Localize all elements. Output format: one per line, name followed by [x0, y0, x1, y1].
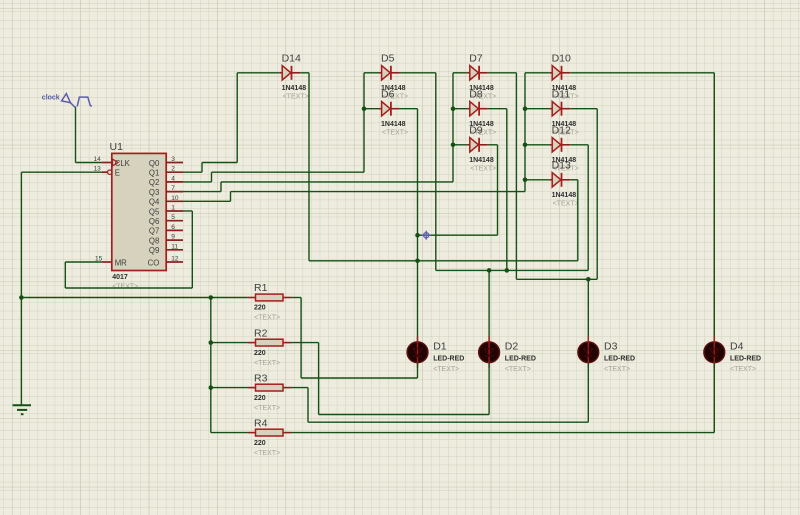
junction D9 anode — [451, 143, 456, 148]
junction D12 anode — [523, 143, 528, 148]
wire D12 cathode — [570, 144, 588, 146]
svg-text:D14: D14 — [282, 53, 301, 65]
svg-text:D3: D3 — [604, 340, 618, 352]
diode D9 — [467, 125, 496, 173]
clock generator — [62, 94, 92, 108]
svg-text:<TEXT>: <TEXT> — [254, 360, 280, 367]
pin 13 E stub with bubble — [102, 171, 108, 173]
wire bus to R2 — [211, 342, 248, 344]
svg-text:MR: MR — [115, 258, 127, 267]
svg-text:LED-RED: LED-RED — [433, 356, 464, 363]
wire R2 right — [291, 342, 319, 344]
svg-text:CLK: CLK — [115, 159, 131, 168]
wire node row y235 — [418, 234, 498, 236]
wire MR loop bottom horizontal — [65, 287, 192, 289]
pin 6 Q7 stub — [166, 229, 183, 231]
svg-text:R3: R3 — [254, 372, 268, 384]
svg-text:D7: D7 — [469, 53, 483, 65]
wire D1 cathode down — [417, 363, 419, 378]
svg-text:<TEXT>: <TEXT> — [283, 93, 309, 100]
junction left rail / ground row — [19, 295, 24, 300]
wire Q3 staircase — [183, 191, 221, 193]
wire bus corner to R4 — [211, 432, 248, 434]
junction D1 line upper — [415, 233, 420, 238]
op IC U1 4017 body — [112, 153, 166, 270]
LED D2 — [479, 336, 536, 373]
svg-text:LED-RED: LED-RED — [505, 356, 536, 363]
junction ground row / resistor bus — [209, 295, 214, 300]
diode D11 — [550, 89, 579, 137]
svg-text:4: 4 — [171, 175, 175, 182]
resistor R3 — [248, 372, 291, 412]
wire bus to R3 — [211, 387, 248, 389]
svg-text:Q9: Q9 — [149, 246, 159, 255]
svg-text:<TEXT>: <TEXT> — [254, 405, 280, 412]
diode D8 — [467, 89, 496, 137]
wire to D10 anode — [525, 72, 550, 74]
wire R3 right — [291, 387, 308, 389]
pin 15 MR stub — [102, 261, 112, 263]
svg-text:D8: D8 — [469, 89, 483, 101]
svg-text:U1: U1 — [110, 141, 124, 153]
svg-text:11: 11 — [171, 243, 178, 250]
svg-text:D11: D11 — [552, 89, 571, 101]
wire to D14 anode — [237, 72, 279, 74]
svg-text:LED-RED: LED-RED — [604, 356, 635, 363]
svg-text:D12: D12 — [552, 125, 571, 137]
LED D3 — [578, 336, 635, 373]
svg-text:5: 5 — [171, 214, 175, 221]
pin 5 Q6 stub — [166, 220, 183, 222]
svg-text:1N4148: 1N4148 — [381, 121, 406, 128]
wire to D13 anode — [525, 179, 550, 181]
wire D7-D9 anode vertical — [452, 73, 454, 182]
diode D7 — [467, 53, 496, 101]
svg-text:D5: D5 — [381, 53, 395, 65]
svg-text:Q5: Q5 — [149, 207, 160, 216]
junction D6 anode — [362, 106, 367, 111]
svg-text:3: 3 — [171, 156, 175, 163]
wire D2 cathode down — [488, 363, 490, 415]
ground — [13, 405, 31, 414]
svg-text:<TEXT>: <TEXT> — [112, 284, 138, 291]
svg-text:<TEXT>: <TEXT> — [505, 366, 531, 373]
svg-text:10: 10 — [171, 195, 179, 202]
svg-text:1N4148: 1N4148 — [282, 85, 307, 92]
svg-text:<TEXT>: <TEXT> — [470, 165, 496, 172]
svg-text:Q0: Q0 — [149, 159, 160, 168]
wire D11 cathode — [570, 108, 597, 110]
svg-text:<TEXT>: <TEXT> — [604, 366, 630, 373]
wire to D11 anode — [525, 108, 550, 110]
wire D13 cathode — [570, 179, 578, 181]
svg-text:1N4148: 1N4148 — [552, 192, 577, 199]
svg-text:Q1: Q1 — [149, 169, 159, 178]
wire Q4 staircase — [183, 200, 231, 202]
svg-text:E: E — [115, 169, 120, 178]
wire D8 cathode — [488, 108, 507, 110]
svg-text:R1: R1 — [254, 282, 268, 294]
wire D9 cathode — [488, 144, 498, 146]
diode D13 — [550, 160, 579, 208]
resistor R1 — [248, 282, 291, 322]
svg-text:D1: D1 — [433, 340, 447, 352]
svg-text:Q4: Q4 — [149, 198, 160, 207]
wire node row y270 — [436, 269, 588, 271]
svg-text:D2: D2 — [505, 340, 519, 352]
junction D3 anode — [586, 277, 591, 282]
svg-text:R2: R2 — [254, 327, 268, 339]
wire D14 anode vertical — [236, 73, 238, 163]
svg-text:1: 1 — [171, 205, 175, 212]
wire left rail vertical to ground — [20, 172, 22, 405]
svg-text:Q3: Q3 — [149, 188, 159, 197]
svg-text:220: 220 — [254, 305, 266, 312]
wire resistor bus vertical — [210, 298, 212, 433]
svg-text:clock: clock — [42, 94, 60, 101]
pin 1 Q5 stub — [166, 210, 183, 212]
svg-text:<TEXT>: <TEXT> — [730, 366, 756, 373]
svg-text:<TEXT>: <TEXT> — [433, 366, 459, 373]
pin 10 Q4 stub — [166, 200, 183, 202]
wire D6 cathode to LED D1 line — [400, 108, 418, 110]
pin 9 Q8 stub — [166, 239, 183, 241]
junction bus R3 — [209, 385, 214, 390]
wire Q5 to vertical — [183, 210, 192, 212]
wire D2 anode vertical — [488, 270, 490, 341]
wire D5/D6 anode vertical — [363, 73, 365, 172]
svg-text:2: 2 — [171, 166, 175, 173]
svg-text:D9: D9 — [469, 125, 483, 137]
wire E pin to left rail — [21, 171, 101, 173]
svg-text:LED-RED: LED-RED — [730, 356, 761, 363]
svg-text:220: 220 — [254, 350, 266, 357]
wire ground row horizontal — [21, 297, 247, 299]
resistor R2 — [248, 327, 291, 367]
diode D14 — [280, 53, 309, 101]
svg-text:14: 14 — [94, 156, 102, 163]
svg-text:D13: D13 — [552, 160, 571, 172]
wire D5 cathode — [400, 72, 436, 74]
pin 7 Q3 stub — [166, 191, 183, 193]
junction D1 line lower — [415, 259, 420, 264]
svg-text:Q8: Q8 — [149, 236, 159, 245]
svg-text:D6: D6 — [381, 89, 395, 101]
svg-text:7: 7 — [171, 185, 175, 192]
wire to D5 anode — [364, 72, 379, 74]
pin 12 CO stub — [166, 261, 183, 263]
svg-text:<TEXT>: <TEXT> — [382, 129, 408, 136]
pin 2 Q1 stub — [166, 171, 183, 173]
junction D8 anode — [451, 106, 456, 111]
svg-text:Q6: Q6 — [149, 217, 159, 226]
diode D10 — [550, 53, 579, 101]
svg-text:12: 12 — [171, 256, 179, 263]
wire to D7 anode — [453, 72, 467, 74]
wire to D12 anode — [525, 144, 550, 146]
resistor R4 — [248, 417, 291, 457]
diode D5 — [379, 53, 408, 101]
LED D4 — [704, 336, 761, 373]
svg-text:Q7: Q7 — [149, 227, 159, 236]
wire D10-D13 anode vertical — [524, 73, 526, 192]
pin 4 Q2 stub — [166, 181, 183, 183]
svg-text:CO: CO — [148, 258, 160, 267]
diode D12 — [550, 125, 579, 173]
wire R1 right — [291, 297, 301, 299]
wire to D8 anode — [453, 108, 467, 110]
svg-text:220: 220 — [254, 440, 266, 447]
junction D8 drop — [505, 268, 510, 273]
wire D4 cathode down — [713, 363, 715, 433]
svg-text:Q2: Q2 — [149, 178, 159, 187]
wire Q2 staircase — [183, 181, 212, 183]
wire Q1 staircase — [183, 171, 202, 173]
wire to D6 anode — [364, 108, 379, 110]
svg-text:6: 6 — [171, 224, 175, 231]
pin 3 Q0 stub — [166, 162, 183, 164]
svg-text:220: 220 — [254, 395, 266, 402]
svg-text:R4: R4 — [254, 417, 268, 429]
diode D6 — [379, 89, 408, 137]
wire D10 cathode long to right — [570, 72, 714, 74]
svg-text:<TEXT>: <TEXT> — [553, 200, 579, 207]
wire node row y260 — [309, 260, 578, 262]
wire D3 cathode down — [587, 363, 589, 422]
wire into MR pin — [65, 261, 101, 263]
wire MR loop left vertical — [64, 262, 66, 288]
wire Q5 vertical down — [191, 211, 193, 288]
junction bus R2 — [209, 340, 214, 345]
svg-text:1N4148: 1N4148 — [469, 157, 494, 164]
svg-text:D10: D10 — [552, 53, 571, 65]
svg-text:<TEXT>: <TEXT> — [254, 315, 280, 322]
pin 14 CLK stub — [102, 162, 112, 164]
wire D7 cathode — [488, 72, 517, 74]
junction D2 anode — [487, 268, 492, 273]
svg-text:D4: D4 — [730, 340, 744, 352]
svg-text:4017: 4017 — [112, 274, 128, 281]
svg-text:9: 9 — [171, 234, 175, 241]
junction D11 anode — [523, 106, 528, 111]
junction D13 anode — [523, 178, 528, 183]
wire D3 anode vertical — [587, 279, 589, 342]
LED D1 — [407, 336, 464, 373]
wire clock to CLK pin — [75, 107, 77, 163]
pin 11 Q9 stub — [166, 249, 183, 251]
wire node row y279 — [516, 278, 597, 280]
wire to D9 anode — [453, 144, 467, 146]
node marker — [422, 231, 431, 240]
svg-text:<TEXT>: <TEXT> — [254, 450, 280, 457]
wire D14 cathode — [300, 72, 309, 74]
